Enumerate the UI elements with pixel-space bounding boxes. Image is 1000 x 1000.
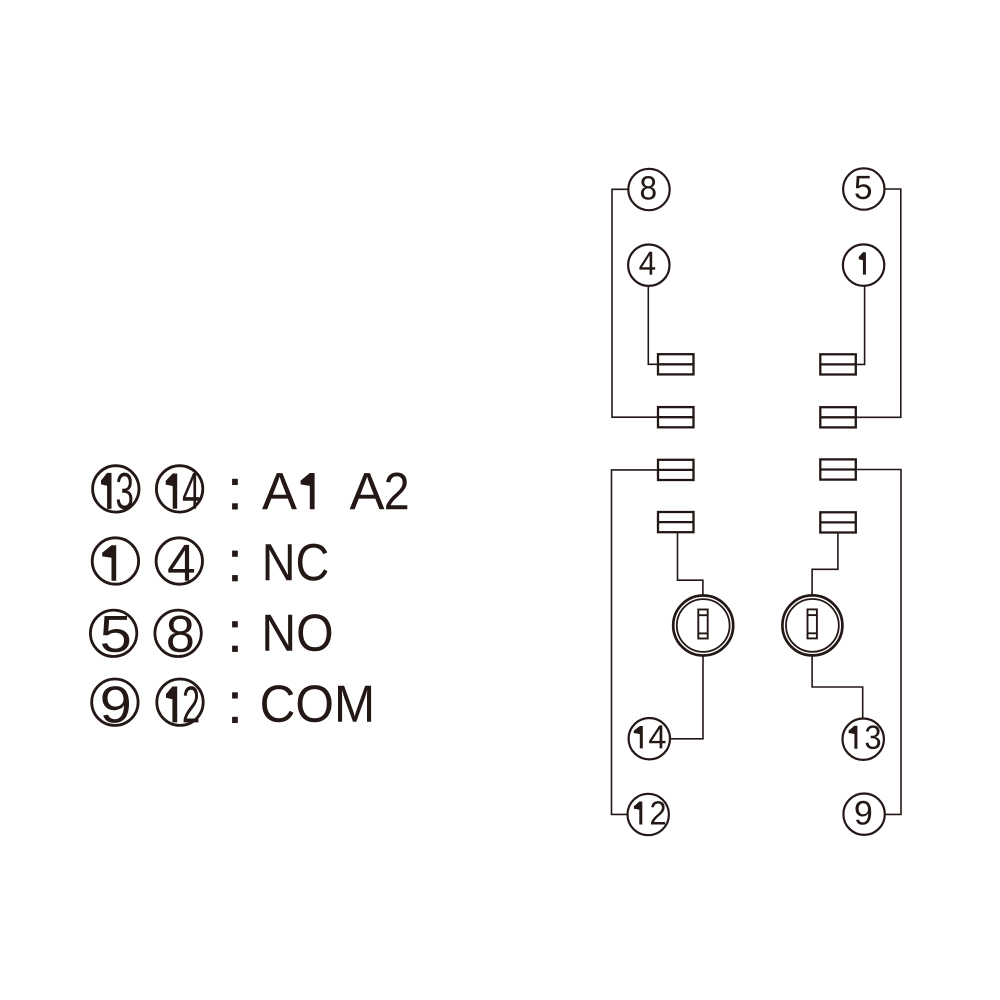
wire coil K2 to pin 13 (812, 655, 863, 719)
legend circle 12 (157, 679, 203, 725)
node 8 circle (628, 169, 669, 210)
contact terminal lower-right COM upper (820, 459, 856, 479)
node 1 circle (843, 244, 884, 285)
contact terminal mid-right NO (820, 407, 856, 427)
legend colon row 2 (232, 551, 238, 557)
contact terminal lower-right coil-side (820, 512, 856, 532)
pin number 13 digit 3 (866, 725, 881, 749)
legend circle 1 (92, 538, 138, 584)
legend circle 14 (156, 466, 202, 512)
pin number 14 digit 4 (649, 725, 665, 748)
legend label NO (265, 614, 331, 651)
legend label A2 digit 2 (386, 473, 407, 510)
coil K1 core mark (698, 610, 707, 639)
pin number 12 digit 2 (651, 801, 665, 824)
legend colon row 3 (232, 621, 238, 627)
wire COM rail right: contact to pin 9 (856, 470, 901, 815)
legend number 1 (102, 545, 116, 581)
legend number 12 digit 2 (184, 686, 199, 722)
legend label COM (262, 685, 371, 722)
node 13 circle (843, 719, 884, 760)
contact terminal lower-left COM upper (658, 460, 694, 480)
contact terminal lower-left coil-side (658, 512, 694, 532)
pin number 1 (859, 252, 866, 274)
coil K2 outer circle (782, 595, 842, 655)
wire contact to coil K1 top (678, 532, 703, 595)
node 12 circle (628, 794, 669, 835)
pin number 8 (641, 176, 656, 200)
legend number 14 digit 4 (183, 473, 199, 509)
legend number 8 (168, 616, 192, 653)
pin number 13 digit 1 (849, 726, 858, 749)
node 5 circle (843, 168, 884, 209)
legend circle 13 (93, 466, 139, 512)
legend number 4 (168, 545, 194, 581)
wire from pin 4 to NC contact (648, 286, 658, 364)
legend number 13 digit 3 (117, 473, 133, 510)
node 14 circle (629, 718, 670, 759)
contact terminal mid-left NO (658, 407, 694, 427)
legend number 14 digit 1 (166, 474, 178, 509)
node 4 circle (628, 245, 669, 286)
coil K1 inner circle (677, 599, 730, 652)
wire coil K1 to pin 14 (671, 655, 703, 739)
coil K2 core mark (808, 609, 817, 638)
legend label A1 digit 1 (301, 473, 315, 509)
legend label A1 letter A (262, 473, 297, 509)
legend number 9 (102, 686, 129, 723)
legend colon row 1 (232, 479, 238, 485)
legend circle 4 (156, 538, 202, 584)
legend number 13 digit 1 (101, 473, 112, 509)
legend number 12 digit 1 (166, 687, 177, 723)
legend number 5 (102, 616, 129, 652)
wire from pin 8 to NO contact left rail (612, 189, 658, 417)
contact terminal upper-left NC (658, 354, 694, 374)
legend label NC (266, 544, 328, 581)
coil K2 inner circle (786, 599, 839, 652)
wire from pin 5 to NO contact right rail (856, 189, 901, 417)
legend colon row 4 (232, 692, 238, 698)
contact terminal upper-right NC (820, 354, 856, 374)
legend circle 8 (155, 610, 201, 656)
legend label A2 letter A (350, 473, 385, 509)
pin number 9 (856, 801, 872, 825)
pin number 12 digit 1 (634, 802, 642, 825)
wire COM rail left: contact to pin 12 (612, 470, 659, 815)
legend circle 5 (90, 610, 136, 656)
wire contact to coil K2 top (812, 533, 838, 596)
coil K1 outer circle (673, 596, 733, 656)
pin number 4 (639, 252, 655, 275)
node 9 circle (843, 794, 884, 835)
wire from pin 1 to NC contact (856, 286, 865, 365)
legend circle 9 (92, 679, 138, 725)
pin number 14 digit 1 (634, 726, 643, 748)
pin number 5 (855, 176, 871, 199)
